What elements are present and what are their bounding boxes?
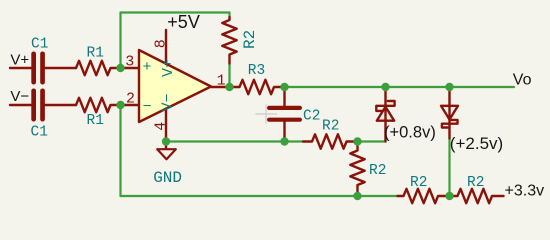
resistor R2 vertical [350, 142, 364, 197]
zener diode D1 cathode [376, 101, 394, 111]
wire top rail [121, 11, 230, 13]
node zener D2 top [445, 83, 453, 91]
node pin3 [116, 64, 124, 72]
svg-text:GND: GND [153, 169, 182, 187]
wire left vertical node2 down [119, 105, 121, 196]
wire R2 bottom lead to output node [228, 64, 230, 88]
svg-text:R1: R1 [87, 46, 104, 62]
svg-text:V+: V+ [160, 59, 177, 77]
svg-text:(+0.8v): (+0.8v) [384, 124, 436, 142]
resistor R2 top vertical [222, 17, 236, 64]
capacitor C1 bottom plates [31, 89, 36, 122]
svg-text:R2: R2 [410, 175, 427, 191]
node R2 junction [353, 137, 361, 145]
resistor R1 bottom zigzag [76, 98, 121, 112]
wire left vertical to node 3 [119, 13, 121, 69]
wire node to zener D1 bottom [358, 140, 386, 142]
zener diode D2 cathode [442, 120, 458, 128]
svg-text:4: 4 [153, 122, 170, 131]
resistor R2 bottom 2 [450, 189, 504, 203]
op-amp U1 triangle [139, 50, 211, 122]
node zener D2 bottom [445, 192, 453, 200]
svg-text:R2: R2 [322, 118, 339, 134]
wire Vo rail [285, 86, 515, 88]
svg-text:R2: R2 [241, 30, 259, 49]
wire bottom rail [121, 195, 398, 197]
zener diode D2 triangle [441, 106, 458, 120]
ground symbol [157, 149, 176, 159]
resistor R2 bottom 1 [398, 189, 450, 203]
svg-text:1: 1 [217, 73, 226, 90]
ground stem [165, 142, 167, 149]
zener diode D2 lead [448, 87, 450, 139]
svg-text:R1: R1 [87, 113, 104, 129]
svg-text:V−: V− [160, 93, 177, 111]
resistor R1 top zigzag [76, 61, 121, 75]
svg-text:R2: R2 [369, 163, 386, 179]
pin 8 line [165, 30, 167, 64]
node C2 bottom [280, 137, 288, 145]
capacitor C1 top leads [10, 67, 76, 69]
node R2v bottom [353, 192, 361, 200]
zener diode D1 lead [384, 87, 386, 142]
resistor R3 [230, 80, 285, 94]
svg-text:R3: R3 [248, 63, 265, 79]
pin 2 wire [121, 104, 140, 106]
svg-text:3: 3 [125, 54, 134, 71]
capacitor C1 bottom leads [10, 104, 76, 106]
svg-text:R2: R2 [467, 175, 484, 191]
node output [225, 83, 233, 91]
svg-text:2: 2 [126, 91, 135, 108]
node pin2 [116, 101, 124, 109]
svg-text:+: + [143, 59, 152, 76]
node zener D1 top [381, 83, 389, 91]
zener diode D1 triangle [377, 107, 394, 121]
pin 3 wire [121, 67, 140, 69]
pin 1 output wire [211, 86, 230, 88]
capacitor C2 leads [283, 87, 285, 142]
svg-text:V−: V− [10, 88, 29, 105]
svg-text:8: 8 [152, 39, 169, 48]
wire mid row [166, 140, 303, 142]
svg-text:(+2.5v): (+2.5v) [450, 134, 503, 153]
wire R2 top lead [228, 13, 230, 18]
node R3/C2 [280, 83, 288, 91]
svg-text:C1: C1 [31, 37, 48, 53]
svg-text:+5V: +5V [167, 12, 200, 32]
capacitor C2 plates [267, 106, 302, 110]
svg-text:C2: C2 [303, 109, 320, 125]
capacitor C1 top plates [31, 52, 36, 85]
svg-text:V+: V+ [10, 52, 29, 69]
svg-text:C1: C1 [31, 124, 48, 140]
svg-text:−: − [143, 98, 152, 115]
anchor crosshair [256, 105, 277, 124]
svg-text:+3.3v: +3.3v [505, 183, 545, 200]
wire zener D2 bottom down [448, 139, 450, 197]
svg-text:Vo: Vo [513, 71, 532, 88]
pin 4 line [165, 109, 167, 142]
resistor R2 mid horizontal [303, 134, 358, 148]
node gnd [162, 137, 170, 145]
